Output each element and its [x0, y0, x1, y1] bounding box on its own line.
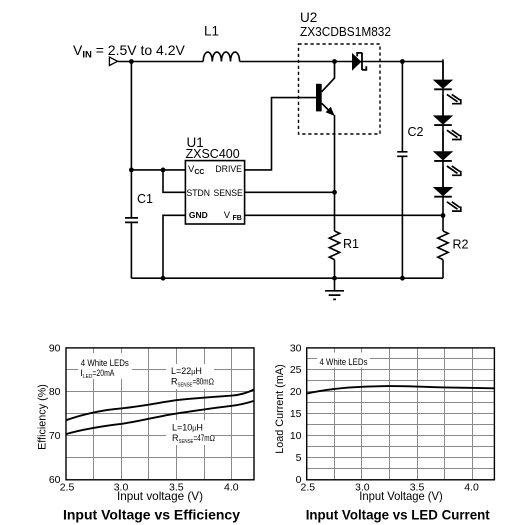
svg-text:25: 25 — [290, 364, 302, 376]
svg-text:SENSE: SENSE — [214, 188, 243, 199]
svg-text:5: 5 — [296, 452, 302, 464]
svg-text:4 White LEDs: 4 White LEDs — [81, 358, 129, 368]
svg-text:ZX3CDBS1M832: ZX3CDBS1M832 — [300, 25, 391, 39]
svg-text:C1: C1 — [137, 192, 153, 206]
svg-text:R1: R1 — [343, 237, 359, 251]
svg-text:2.5: 2.5 — [300, 482, 315, 494]
svg-text:U2: U2 — [300, 10, 317, 25]
svg-text:L1: L1 — [204, 24, 219, 39]
svg-text:STDN: STDN — [187, 188, 211, 199]
svg-text:4.0: 4.0 — [464, 482, 479, 494]
svg-text:Efficiency (%): Efficiency (%) — [37, 384, 49, 450]
svg-text:2.5: 2.5 — [60, 482, 75, 494]
svg-text:L=10µH: L=10µH — [172, 423, 203, 433]
svg-text:10: 10 — [290, 430, 302, 442]
svg-text:DRIVE: DRIVE — [215, 164, 242, 175]
svg-text:C2: C2 — [408, 125, 424, 139]
svg-text:GND: GND — [189, 210, 208, 220]
svg-text:ZXSC400: ZXSC400 — [186, 147, 240, 161]
svg-text:70: 70 — [49, 430, 61, 442]
svg-text:15: 15 — [290, 408, 302, 420]
svg-text:30: 30 — [290, 343, 302, 355]
svg-text:Input Voltage vs LED Current: Input Voltage vs LED Current — [306, 507, 490, 522]
svg-text:Load Current (mA): Load Current (mA) — [274, 364, 286, 453]
svg-text:80: 80 — [49, 386, 61, 398]
svg-text:Input Voltage (V): Input Voltage (V) — [359, 489, 443, 503]
svg-text:4 White LEDs: 4 White LEDs — [320, 357, 368, 367]
svg-text:Input Voltage vs Efficiency: Input Voltage vs Efficiency — [63, 507, 240, 522]
svg-text:L=22µH: L=22µH — [171, 366, 202, 376]
svg-text:20: 20 — [290, 386, 302, 398]
svg-text:Input voltage (V): Input voltage (V) — [117, 489, 203, 503]
svg-text:R2: R2 — [453, 238, 469, 252]
svg-text:4.0: 4.0 — [224, 482, 239, 494]
svg-text:90: 90 — [49, 343, 61, 355]
